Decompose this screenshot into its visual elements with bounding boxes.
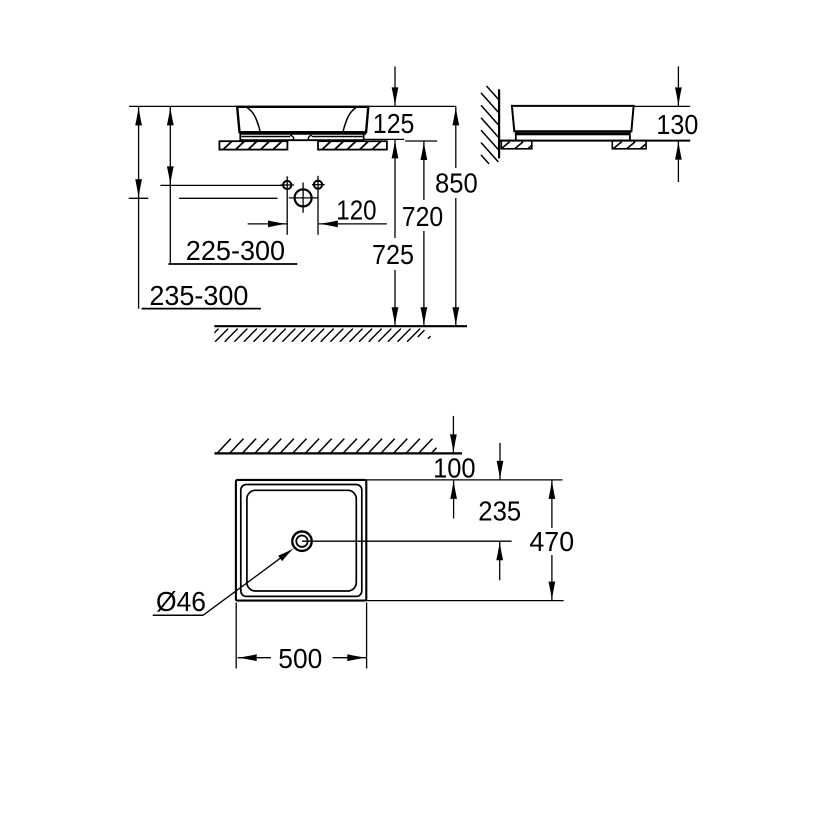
counter strip right (hatched) <box>318 141 387 149</box>
basin plinth (right view) <box>516 132 630 135</box>
svg-text:100: 100 <box>433 453 476 484</box>
basin plinth <box>240 134 363 140</box>
dim 500 <box>238 657 271 659</box>
wall line <box>498 89 500 158</box>
svg-text:120: 120 <box>336 195 376 226</box>
dim 100 <box>452 416 454 454</box>
basin inner curve right <box>343 108 356 132</box>
svg-text:225-300: 225-300 <box>186 235 285 266</box>
basin top edge extension <box>366 479 562 481</box>
leader line for diameter <box>203 558 281 616</box>
faucet hole right small circle <box>314 181 322 189</box>
basin inner bowl rounded rect <box>247 490 356 591</box>
dim 725 vertical line <box>394 139 396 238</box>
dim 120 horizontal <box>248 223 287 225</box>
drain centre line to right <box>302 540 512 542</box>
wall hatching <box>481 86 499 164</box>
spout hole reference line <box>179 197 277 199</box>
drain trap detail <box>242 135 363 140</box>
drain outer circle <box>292 532 311 551</box>
reference line for 720 <box>405 140 437 142</box>
dim 500 extension lines <box>235 603 237 669</box>
svg-text:500: 500 <box>278 643 322 674</box>
label 235-300 <box>142 308 261 310</box>
svg-text:130: 130 <box>656 109 698 140</box>
basin inner curve left <box>247 108 260 132</box>
counter bracket left (hatched) <box>501 141 532 149</box>
counter bracket right (hatched) <box>612 141 646 149</box>
svg-text:725: 725 <box>372 239 414 270</box>
faucet hole left small circle <box>283 181 291 189</box>
spout hole big circle <box>295 189 312 206</box>
svg-text:125: 125 <box>373 108 415 139</box>
drain inner circle <box>296 536 307 547</box>
faucet deck reference line <box>160 184 282 186</box>
dim line 225-300 vertical <box>169 106 171 264</box>
dim 235 <box>499 443 501 480</box>
basin middle rounded rect <box>241 485 362 597</box>
svg-text:Ø46: Ø46 <box>156 586 206 617</box>
label 225-300 <box>168 263 297 265</box>
dim line 235-300 vertical <box>138 106 140 308</box>
basin bottom edge extension <box>366 600 563 602</box>
floor hatching <box>206 329 421 342</box>
top reference extension line <box>634 105 691 107</box>
svg-text:850: 850 <box>435 168 478 199</box>
basin body (side view) <box>237 107 368 132</box>
reference line under basin (125 bottom / 725 top) <box>364 138 405 140</box>
dim 720 vertical line <box>423 141 425 200</box>
basin bottom thick edge <box>240 132 367 135</box>
wall hatching (plan) <box>217 439 437 454</box>
counter strip left (hatched) <box>219 141 287 149</box>
dim 125 upper arrow <box>394 67 396 107</box>
svg-text:470: 470 <box>529 526 574 557</box>
basin body (right view) <box>512 106 634 131</box>
dim 470 <box>551 480 553 528</box>
svg-text:235-300: 235-300 <box>149 280 248 311</box>
dim 850 vertical line <box>455 106 457 168</box>
svg-text:235: 235 <box>478 496 521 527</box>
dim 130 <box>677 66 679 106</box>
floor line <box>214 325 467 327</box>
tick at hole centre line <box>129 197 149 199</box>
top rim reference line <box>129 105 456 107</box>
counter line <box>499 140 690 142</box>
svg-text:720: 720 <box>402 201 443 232</box>
basin outer square (plan) <box>236 480 366 601</box>
wall line (plan) <box>214 452 462 454</box>
